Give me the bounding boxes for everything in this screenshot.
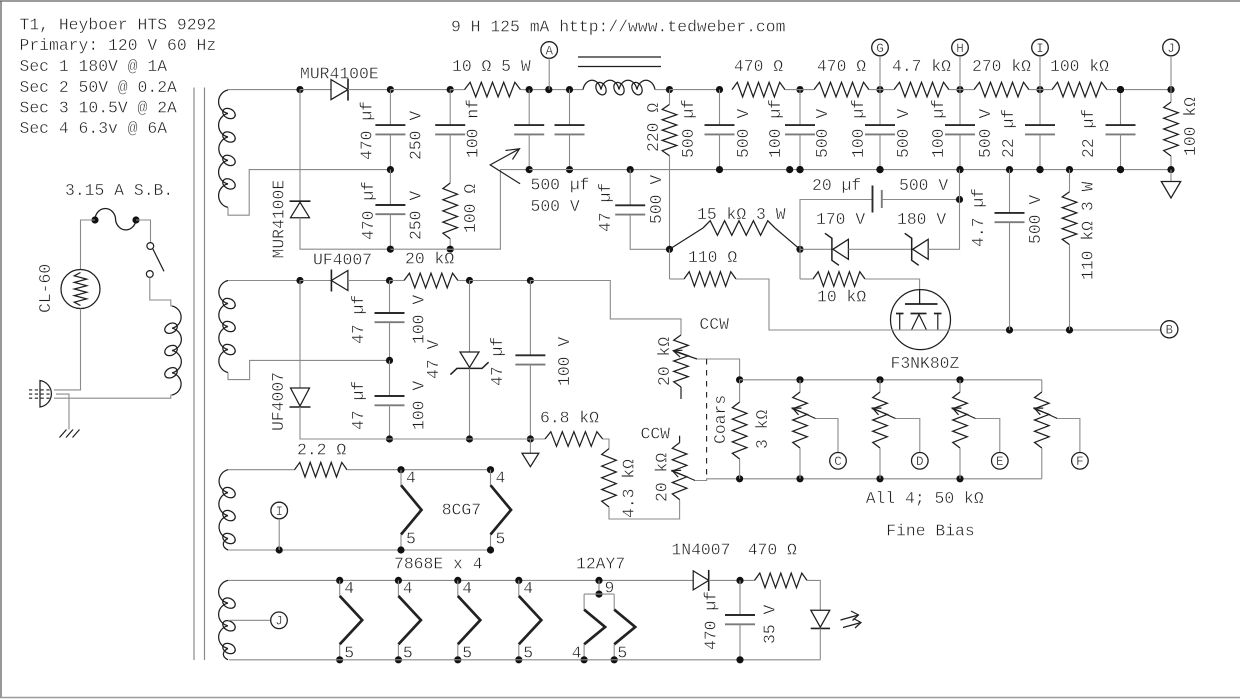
earth ground symbol: [60, 430, 80, 438]
junction heater2 pin5 4: [515, 656, 522, 663]
svg-text:Coars: Coars: [711, 395, 730, 444]
wire 220 ohm lower lead crossing ground: [669, 156, 671, 250]
junction bias bottom rail cap2: [386, 435, 393, 442]
wire fuse right to switch: [136, 220, 151, 243]
resistor 110 ohm: [684, 272, 736, 287]
junction bias top rail 3k: [736, 376, 743, 383]
wire rail 470-4.7k: [869, 89, 894, 91]
svg-text:H: H: [956, 42, 964, 56]
junction zener row right: [796, 246, 803, 253]
wire gate lead: [865, 279, 920, 304]
capacitor 470uf 250V C2: [375, 204, 405, 206]
capacitor 100 uF ladder 2: [785, 124, 815, 126]
wire 15k left diagonal: [670, 228, 704, 249]
heater 7868E no4: [518, 580, 520, 596]
transformer HV secondary winding: [219, 90, 228, 207]
svg-text:B: B: [1166, 324, 1174, 338]
wire ladder cap 4 lower lead: [959, 134, 961, 169]
transformer heater winding 6.3V: [219, 580, 228, 659]
svg-text:170 V: 170 V: [816, 210, 865, 229]
wire choke to node G rail: [655, 89, 670, 91]
resistor 10k gate: [813, 272, 865, 287]
wire 110 ohm feed: [669, 249, 671, 279]
wire 100k bleed lower lead: [1170, 156, 1172, 170]
svg-text:100 kΩ: 100 kΩ: [1181, 97, 1200, 156]
svg-text:A: A: [545, 44, 553, 58]
svg-text:4: 4: [406, 468, 416, 487]
svg-text:500 V: 500 V: [1026, 195, 1045, 244]
capacitor 47uf 100V C5: [375, 312, 405, 314]
resistor 100k series: [1052, 82, 1107, 97]
wire bias negative branch lower: [300, 407, 390, 439]
svg-text:47 µf: 47 µf: [488, 337, 507, 386]
svg-text:100 µf: 100 µf: [766, 99, 785, 158]
wire fine pot F wiper to node: [1057, 419, 1080, 453]
node I reference: [271, 502, 288, 519]
svg-text:T1, Heyboer HTS 9292: T1, Heyboer HTS 9292: [20, 16, 217, 35]
wire ground stub right: [1170, 170, 1172, 182]
svg-text:UF4007: UF4007: [269, 372, 288, 431]
wire bias winding center tap: [228, 360, 390, 379]
svg-text:MUR4100E: MUR4100E: [300, 65, 379, 84]
svg-text:470 µf: 470 µf: [701, 591, 720, 650]
junction cap 500uf no2 bottom: [566, 166, 573, 173]
svg-text:20 µf: 20 µf: [812, 176, 861, 195]
wire ladder cap 3 upper lead: [879, 90, 881, 126]
svg-text:47 µf: 47 µf: [349, 381, 368, 430]
svg-text:MUR4100E: MUR4100E: [270, 180, 289, 259]
wire node I stem: [1039, 56, 1041, 90]
wire LED lower lead: [819, 628, 821, 659]
junction ladder cap 4 top: [956, 86, 963, 93]
junction bias top rail pot D: [876, 376, 883, 383]
wire fine pot F lower lead: [1041, 448, 1043, 479]
svg-text:J: J: [1167, 42, 1175, 56]
capacitor 100 uF ladder 4: [945, 124, 975, 126]
junction ladder cap 6 top: [1117, 86, 1124, 93]
wire LED cap upper lead: [739, 580, 741, 615]
junction bias negative branch: [296, 277, 303, 284]
wire fuse left lead: [81, 220, 96, 270]
junction bias top rail pot E: [956, 376, 963, 383]
wire CL-60 to plug: [54, 309, 81, 390]
wire ladder cap 6 upper lead: [1120, 90, 1122, 126]
wire 100 ohm lower lead: [449, 239, 451, 249]
annotation arrow to 500uf caps: [490, 149, 520, 184]
wiper fine pot E: [953, 408, 976, 419]
wire zener47 upper lead: [469, 281, 471, 353]
junction rail at 1120: [1117, 86, 1124, 93]
junction ground rail 1120: [1117, 166, 1124, 173]
wire 20uf loop right: [882, 199, 960, 201]
wire node I stem: [278, 519, 280, 550]
svg-text:180 V: 180 V: [897, 210, 946, 229]
wire bias rail segment 2: [348, 280, 390, 282]
wire MUR bottom rail: [390, 170, 529, 250]
junction heater2 pin5 3: [454, 656, 461, 663]
capacitor 47uf 100V C6: [375, 395, 405, 397]
resistor 10 ohm 5 W: [465, 82, 521, 97]
junction zener row left: [666, 246, 673, 253]
svg-text:20 kΩ: 20 kΩ: [653, 453, 672, 502]
wire fine pot D wiper to node: [896, 419, 920, 453]
svg-text:E: E: [996, 455, 1004, 469]
svg-text:100 V: 100 V: [410, 295, 429, 344]
junction bias center tap: [386, 357, 393, 364]
svg-text:F: F: [1076, 455, 1084, 469]
svg-text:470 Ω: 470 Ω: [734, 57, 783, 76]
resistor 15k 3W: [703, 221, 775, 236]
svg-text:All 4; 50 kΩ: All 4; 50 kΩ: [866, 489, 984, 508]
svg-text:10 Ω 5 W: 10 Ω 5 W: [452, 57, 531, 76]
svg-text:D: D: [916, 455, 924, 469]
ground symbol bias: [522, 453, 539, 467]
wiper upper 20k pot: [674, 351, 698, 359]
wire 10k feed: [799, 249, 801, 279]
svg-text:C: C: [834, 455, 842, 469]
svg-text:220 Ω: 220 Ω: [644, 103, 663, 152]
svg-text:4.3 kΩ: 4.3 kΩ: [620, 459, 639, 518]
capacitor 500uf 500V C3: [514, 124, 544, 126]
transformer bias secondary winding: [219, 281, 228, 373]
wire HV secondary top to rail: [228, 89, 300, 91]
wire switch to primary: [150, 278, 172, 306]
svg-text:4: 4: [496, 468, 506, 487]
svg-text:Sec 3 10.5V @ 2A: Sec 3 10.5V @ 2A: [20, 99, 178, 118]
choke core lines: [578, 56, 661, 58]
resistor 270k: [974, 82, 1029, 97]
svg-text:500 V: 500 V: [531, 197, 580, 216]
resistor 470 ohm second: [814, 82, 869, 97]
junction ladder cap 4 bottom: [956, 166, 963, 173]
transformer primary winding: [172, 306, 181, 395]
wire bias rail segment 1: [300, 280, 331, 282]
wire ladder cap 1 upper lead: [719, 90, 721, 126]
junction cap 500uf no2 top: [566, 86, 573, 93]
ground symbol right: [1161, 182, 1180, 199]
junction ladder cap 3 top: [876, 86, 883, 93]
potentiometer 50k fine bias C: [793, 392, 808, 448]
svg-text:12AY7: 12AY7: [576, 555, 625, 574]
resistor 100k bleed: [1164, 102, 1179, 156]
svg-text:5: 5: [496, 530, 506, 549]
wire 12AY7 pin9 stub: [598, 580, 600, 594]
diode 1N4007: [693, 571, 709, 590]
wire main B+ rail segment 1: [300, 89, 331, 91]
junction bias bottom rail pot C: [796, 475, 803, 482]
junction bias bottom rail pot E: [956, 475, 963, 482]
resistor 20k dropper: [404, 273, 458, 288]
svg-text:4.7 kΩ: 4.7 kΩ: [892, 57, 951, 76]
heater 8CG7 no2: [490, 470, 492, 486]
svg-text:3.15 A S.B.: 3.15 A S.B.: [65, 181, 173, 200]
junction node I tap: [276, 546, 283, 553]
junction bias top rail pot C: [796, 376, 803, 383]
svg-text:470 µf: 470 µf: [359, 181, 378, 240]
wire cap 470uf no1 lower lead: [389, 134, 391, 169]
wire 220 ohm upper lead: [669, 90, 671, 105]
svg-text:500 V: 500 V: [647, 175, 666, 224]
wiper fine pot C: [793, 408, 816, 419]
svg-text:F3NK80Z: F3NK80Z: [891, 354, 960, 373]
wire 4.3k bottom to pot: [609, 500, 680, 519]
junction HV center tap: [387, 166, 394, 173]
wire zener47 lower lead: [469, 368, 471, 439]
capacitor 470uf 250V C1: [375, 124, 405, 126]
heater 8CG7 no1: [400, 470, 402, 486]
wire bias top rail: [740, 379, 1042, 381]
wire 3k upper lead: [739, 380, 741, 402]
svg-text:9: 9: [605, 579, 615, 598]
svg-text:22 µf: 22 µf: [999, 109, 1018, 158]
diode UF4007 D3: [331, 271, 348, 291]
junction MUR bottom rail at cap2: [387, 246, 394, 253]
svg-text:5: 5: [406, 530, 416, 549]
potentiometer 50k fine bias F: [1035, 392, 1050, 448]
svg-text:3 kΩ: 3 kΩ: [753, 409, 772, 449]
junction ground rail 1010: [1006, 166, 1013, 173]
wire 20k left lead: [390, 280, 405, 282]
junction ladder cap 6 bottom: [1117, 166, 1124, 173]
switch S1: [147, 243, 154, 250]
wire node G stem: [879, 56, 881, 90]
page border left: [0, 1, 2, 697]
wire ladder cap 6 lower lead: [1120, 134, 1122, 169]
svg-text:20 kΩ: 20 kΩ: [405, 250, 454, 269]
junction 12AY7 pin5: [611, 656, 618, 663]
wire rail 100k to node J: [1107, 89, 1171, 91]
capacitor 47uf 500V: [615, 204, 645, 206]
fuse F1: [95, 209, 136, 230]
svg-text:CCW: CCW: [699, 315, 729, 334]
wire cap47 no2 lower lead: [389, 405, 391, 439]
svg-text:100 kΩ: 100 kΩ: [1050, 57, 1109, 76]
svg-text:15 kΩ 3 W: 15 kΩ 3 W: [697, 205, 786, 224]
junction fuse right: [132, 216, 139, 223]
svg-text:47 µf: 47 µf: [349, 295, 368, 344]
junction LED filter cap bottom: [736, 656, 743, 663]
potentiometer 50k fine bias D: [873, 392, 888, 448]
wire source B rail: [891, 329, 1161, 331]
potentiometer 20k coarse upper: [674, 335, 689, 387]
node F: [1072, 453, 1089, 470]
resistor 100 ohm: [443, 183, 458, 239]
junction ground rail 1070: [1066, 166, 1073, 173]
junction 12AY7 pin9 bar: [595, 591, 602, 598]
zener diode 170V: [833, 239, 849, 259]
wire main B+ rail segment 3: [390, 89, 450, 91]
svg-text:Sec 4 6.3v @ 6A: Sec 4 6.3v @ 6A: [20, 119, 168, 138]
wire 47uf500 upper lead: [629, 170, 631, 206]
wire heater1 top rail: [228, 469, 295, 471]
wire 470 ohm to LED: [807, 580, 820, 610]
junction LED filter cap top: [736, 577, 743, 584]
resistor 4.7k: [894, 82, 949, 97]
junction ladder cap 2 bottom: [796, 166, 803, 173]
junction ground rail 800: [796, 166, 803, 173]
wire bias bottom rail pots: [740, 478, 1042, 480]
wire main B+ rail segment 2: [348, 89, 390, 91]
wire 4.7uf upper lead: [1009, 170, 1011, 213]
svg-text:500 V: 500 V: [976, 109, 995, 158]
junction heater2 pin4 1: [336, 577, 343, 584]
junction ladder cap 5 top: [1036, 86, 1043, 93]
junction B rail 4.7uf: [1006, 326, 1013, 333]
resistor 6.8k: [545, 432, 603, 447]
transformer heater winding 10.5V: [219, 470, 228, 550]
wire zener row left segment: [800, 248, 832, 250]
wire 20uf loop: [800, 200, 873, 250]
svg-text:270 kΩ: 270 kΩ: [972, 57, 1031, 76]
svg-text:CL-60: CL-60: [36, 264, 55, 313]
capacitor 47uf 100V C7: [515, 354, 545, 356]
svg-text:4: 4: [403, 579, 413, 598]
svg-text:500 V: 500 V: [894, 109, 913, 158]
wire node J tap: [228, 619, 270, 621]
node D: [912, 453, 929, 470]
wire rail 270k-100k: [1029, 89, 1052, 91]
zener diode 180V: [913, 239, 929, 259]
wire cap 100nf upper lead: [449, 90, 451, 126]
svg-text:Sec 1 180V @ 1A: Sec 1 180V @ 1A: [20, 57, 168, 76]
junction bias bottom rail cap3: [527, 435, 534, 442]
svg-text:9 H 125 mA http://www.tedweber: 9 H 125 mA http://www.tedweber.com: [451, 18, 785, 37]
AC plug: [40, 381, 51, 408]
wire zener row right segment: [928, 200, 959, 250]
svg-text:100 µf: 100 µf: [849, 99, 868, 158]
svg-text:110 Ω: 110 Ω: [688, 248, 737, 267]
wire plug neutral to primary: [54, 395, 172, 398]
diode UF4007 D4: [291, 388, 310, 406]
capacitor 100nf: [435, 124, 465, 126]
transformer core line left: [193, 88, 195, 661]
wire zener feed from ground rail: [959, 170, 961, 200]
wire rail 4.7k-270k: [949, 89, 974, 91]
wire ladder cap 2 upper lead: [799, 90, 801, 126]
svg-text:500 µf: 500 µf: [679, 99, 698, 158]
svg-text:2.2 Ω: 2.2 Ω: [297, 440, 346, 459]
svg-text:Sec 2 50V @ 0.2A: Sec 2 50V @ 0.2A: [20, 78, 178, 97]
potentiometer 20k coarse lower: [672, 443, 687, 500]
heater 12AY7 right: [613, 594, 615, 610]
junction heater2 pin4 4: [515, 577, 522, 584]
wire ladder cap 1 lower lead: [719, 134, 721, 169]
svg-text:4: 4: [523, 579, 533, 598]
junction cap 500uf no1 top: [526, 86, 533, 93]
LED indicator: [811, 610, 830, 627]
wire cap 470uf no2 lower lead: [389, 214, 391, 249]
wire fine pot C upper lead: [799, 380, 801, 392]
wire heater2 top rail: [228, 579, 693, 581]
wire cap47 no2 upper lead: [389, 360, 391, 396]
svg-text:470 µf: 470 µf: [358, 101, 377, 160]
capacitor 20uf 500V: [872, 186, 874, 213]
svg-text:500 V: 500 V: [899, 176, 948, 195]
svg-text:100 Ω: 100 Ω: [461, 184, 480, 233]
node J: [1163, 39, 1180, 56]
node H: [952, 39, 969, 56]
svg-text:100 µf: 100 µf: [929, 99, 948, 158]
wire 15k right diagonal: [775, 228, 800, 249]
capacitor 4.7uf 500V: [995, 212, 1025, 214]
wire bias negative branch upper: [299, 281, 301, 389]
capacitor 500uf 500V C4: [555, 124, 585, 126]
svg-text:Fine Bias: Fine Bias: [886, 522, 975, 541]
heater 7868E no3: [457, 580, 459, 596]
junction B rail 110k: [1066, 326, 1073, 333]
capacitor 470uf 35V: [725, 614, 755, 616]
svg-text:J: J: [275, 615, 283, 629]
svg-text:8CG7: 8CG7: [442, 501, 481, 520]
wire 47uf500 lower lead: [630, 215, 669, 250]
wire cap 470uf no2 upper lead: [389, 170, 391, 205]
capacitor 100 uF ladder 3: [865, 124, 895, 126]
capacitor 22 uF ladder 5: [1025, 124, 1055, 126]
wire 3k lower lead: [739, 459, 741, 479]
junction heater2 pin5 1: [336, 656, 343, 663]
choke L1 9H: [583, 80, 655, 89]
wire ground rail: [529, 169, 1171, 171]
wire cap47 no1 upper lead: [389, 281, 391, 314]
junction ladder cap 1 top: [716, 86, 723, 93]
gang line Coars dashed: [706, 359, 708, 479]
junction ladder cap 3 bottom: [876, 166, 883, 173]
wire ladder cap 5 upper lead: [1039, 90, 1041, 126]
resistor 110k 3W: [1062, 192, 1077, 245]
svg-text:20 kΩ: 20 kΩ: [655, 337, 674, 386]
wire plug earth lead: [56, 394, 69, 429]
wire node H stem: [959, 56, 961, 90]
wire cap 500uf no1 lower lead: [528, 134, 530, 169]
wire ladder cap 2 lower lead: [799, 134, 801, 169]
wire fine pot C lower lead: [799, 448, 801, 479]
wire bias ground stub: [529, 439, 531, 453]
wire rail 470-470: [785, 89, 814, 91]
page border bottom: [0, 697, 1240, 699]
wire fine pot F upper lead: [1041, 380, 1043, 392]
page border top: [0, 0, 1240, 2]
junction 12AY7 pin4: [581, 656, 588, 663]
wiper lower 20k pot: [672, 471, 695, 481]
wire fine pot E lower lead: [959, 448, 961, 479]
svg-text:500 µf: 500 µf: [531, 176, 590, 195]
wire ladder cap 3 lower lead: [879, 134, 881, 169]
svg-text:35 V: 35 V: [761, 604, 780, 644]
junction cap 500uf no1 bottom: [526, 166, 533, 173]
junction fuse left: [91, 216, 98, 223]
resistor 470 ohm LED: [755, 573, 808, 588]
heater 7868E no1: [339, 580, 341, 596]
wire fine pot C wiper to node: [816, 419, 839, 453]
capacitor 22 uF ladder 6: [1106, 124, 1136, 126]
wire 110 ohm left lead: [670, 278, 685, 280]
junction 20uf right: [956, 196, 963, 203]
wire cap 470uf no1 upper lead: [389, 90, 391, 126]
wire heater2 bottom rail: [229, 659, 820, 661]
svg-text:470 Ω: 470 Ω: [748, 541, 797, 560]
junction rail at node J: [1167, 86, 1174, 93]
resistor 470 ohm first: [732, 82, 785, 97]
wiper fine pot F: [1034, 408, 1057, 419]
wire cap 500uf no1 upper lead: [528, 90, 530, 126]
potentiometer 50k fine bias E: [953, 392, 968, 448]
svg-text:10 kΩ: 10 kΩ: [817, 288, 866, 307]
junction bias bottom rail pot D: [876, 475, 883, 482]
junction MUR negative branch: [296, 86, 303, 93]
wire bias winding top to rail: [228, 280, 300, 282]
junction ladder cap 2 top: [796, 86, 803, 93]
wire cap 100nf to resistor: [449, 134, 451, 183]
